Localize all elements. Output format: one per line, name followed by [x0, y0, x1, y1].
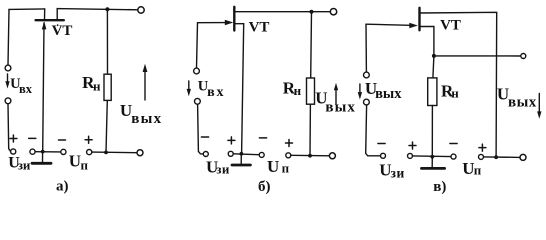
minus sign (v, Up)	[450, 143, 457, 145]
wire left vertical (v)	[365, 24, 367, 72]
label VT (a)	[57, 24, 59, 26]
node: junction dot rail (a)	[104, 151, 108, 155]
plus sign (b, Uzi)	[228, 137, 235, 144]
svg-text:п: п	[81, 157, 89, 172]
resistor Rn (v)	[428, 78, 437, 106]
svg-text:в): в)	[433, 179, 446, 195]
terminal circle output bottom (b)	[329, 153, 335, 159]
svg-text:зи: зи	[391, 165, 405, 180]
svg-text:вх: вх	[207, 85, 225, 100]
arrow Uout (b)	[335, 90, 337, 105]
arrow Uout (a)	[144, 67, 146, 100]
svg-text:зи: зи	[18, 158, 31, 173]
wire left to rail (v)	[366, 105, 381, 156]
wire input to rail (a)	[8, 104, 11, 152]
wire R load branch top	[106, 9, 108, 74]
resistor Rn (b)	[307, 78, 315, 104]
wire rail segment (a)	[35, 151, 61, 153]
terminal circle input bottom (b)	[195, 98, 201, 104]
wire rail right (b)	[291, 154, 330, 157]
wire input to rail (b)	[198, 104, 204, 154]
node: junction dot ground (v)	[430, 155, 434, 159]
transistor VT (v): channel bar	[418, 8, 420, 31]
wire source node to output (v)	[434, 55, 521, 57]
transistor VT (b): source lead	[235, 24, 243, 154]
terminal circle Uzi right (a)	[30, 149, 35, 154]
terminal circle Uzi right (b)	[228, 151, 233, 156]
svg-text:U: U	[69, 152, 81, 171]
transistor VT (b): channel bar	[233, 7, 235, 31]
node: junction dot rail (v)	[494, 155, 498, 159]
wire top-left horizontal	[9, 8, 45, 11]
arrow Uin (a)	[7, 74, 9, 85]
transistor VT (b): drain lead	[234, 11, 330, 13]
terminal circle Uzi left (a)	[11, 149, 16, 154]
terminal circle output bottom (a)	[137, 150, 143, 156]
ground (a)	[42, 152, 44, 162]
terminal circle Up left (v)	[451, 154, 456, 159]
transistor VT (a): gate wire with arrow	[43, 23, 44, 151]
wire rail right (v)	[484, 156, 521, 159]
minus sign (b, Up)	[259, 137, 266, 139]
wire R load bottom (v)	[431, 106, 433, 157]
transistor VT (a): channel bar	[36, 19, 64, 21]
wire R load branch bottom	[106, 100, 107, 152]
transistor VT (a): drain lead	[57, 9, 138, 20]
terminal circle Up right (b)	[286, 153, 291, 158]
transistor VT (b): gate wire with arrow	[198, 22, 227, 24]
svg-text:вых: вых	[131, 111, 162, 127]
wire R load branch top (b)	[310, 12, 313, 78]
svg-text:п: п	[474, 162, 482, 177]
transistor VT (v): gate wire with arrow	[366, 24, 410, 25]
svg-text:н: н	[294, 83, 302, 98]
transistor VT (v): source lead	[421, 27, 434, 56]
terminal circle output top (b)	[330, 9, 336, 15]
terminal circle input top (b)	[194, 68, 200, 74]
arrow Uout-right (v)	[538, 94, 540, 116]
wire source node to resistor (v)	[433, 56, 434, 78]
svg-text:п: п	[282, 161, 290, 176]
terminal circle input top (a)	[5, 65, 11, 71]
node: junction dot top (b)	[310, 10, 314, 14]
svg-text:VT: VT	[249, 20, 270, 36]
svg-text:вых: вых	[325, 100, 356, 116]
plus sign (a, Uzi)	[10, 135, 17, 142]
minus sign (a, Uzi)	[29, 137, 36, 139]
terminal circle Up right (a)	[87, 150, 92, 155]
node: junction dot top (a)	[105, 7, 109, 11]
terminal circle input bottom (a)	[5, 98, 11, 104]
plus sign (b, Up)	[286, 140, 293, 147]
node: junction dot rail (b)	[308, 154, 312, 158]
ground (v)	[431, 157, 433, 167]
resistor Rn (a)	[104, 74, 111, 100]
wire rail right (a)	[92, 151, 137, 154]
terminal circle Up left (b)	[259, 152, 264, 157]
node: junction dot source (v)	[432, 54, 436, 58]
wire left vertical input	[8, 9, 9, 65]
terminal circle output-left top (v)	[364, 72, 370, 78]
node: junction dot ground (b)	[240, 152, 244, 156]
minus sign (a, Up)	[59, 139, 66, 141]
node: junction dot ground (a)	[41, 150, 45, 154]
svg-text:вых: вых	[375, 86, 402, 102]
terminal circle Up right (v)	[479, 154, 484, 159]
svg-text:VT: VT	[440, 18, 461, 34]
svg-text:вх: вх	[19, 82, 33, 96]
wire rail segment (b)	[233, 153, 259, 156]
svg-text:U: U	[267, 157, 279, 176]
svg-text:н: н	[93, 79, 101, 94]
minus sign (b, Uzi)	[201, 136, 208, 138]
plus sign (v, Up)	[479, 144, 486, 151]
arrow Uout-left (v)	[359, 84, 361, 96]
transistor VT (v): drain lead	[420, 12, 497, 157]
svg-text:зи: зи	[216, 162, 230, 177]
svg-text:б): б)	[258, 179, 271, 195]
plus sign (a, Up)	[85, 136, 92, 143]
wire left vertical (b)	[197, 23, 198, 68]
terminal circle output top (a)	[138, 7, 144, 13]
ground (b)	[240, 154, 242, 164]
terminal circle Uzi right (v)	[408, 153, 413, 158]
terminal circle Up left (a)	[61, 149, 66, 154]
svg-text:а): а)	[56, 179, 69, 195]
terminal circle Uzi left (v)	[381, 153, 386, 158]
minus sign (v, Uzi)	[378, 143, 385, 145]
transistor VT (a): source lead	[44, 9, 46, 20]
arrow Uin (b)	[188, 81, 190, 93]
terminal circle output-right bottom (v)	[520, 154, 526, 160]
svg-text:н: н	[451, 86, 459, 101]
terminal circle output-left bottom (v)	[364, 99, 370, 105]
svg-text:вых: вых	[508, 94, 537, 110]
plus sign (v, Uzi)	[409, 142, 416, 149]
wire rail segment (v)	[413, 155, 452, 158]
terminal circle Uzi left (b)	[203, 152, 208, 157]
svg-text:VT: VT	[52, 23, 73, 39]
wire R load branch bottom (b)	[309, 104, 311, 156]
terminal circle output-right top (v)	[521, 54, 526, 59]
